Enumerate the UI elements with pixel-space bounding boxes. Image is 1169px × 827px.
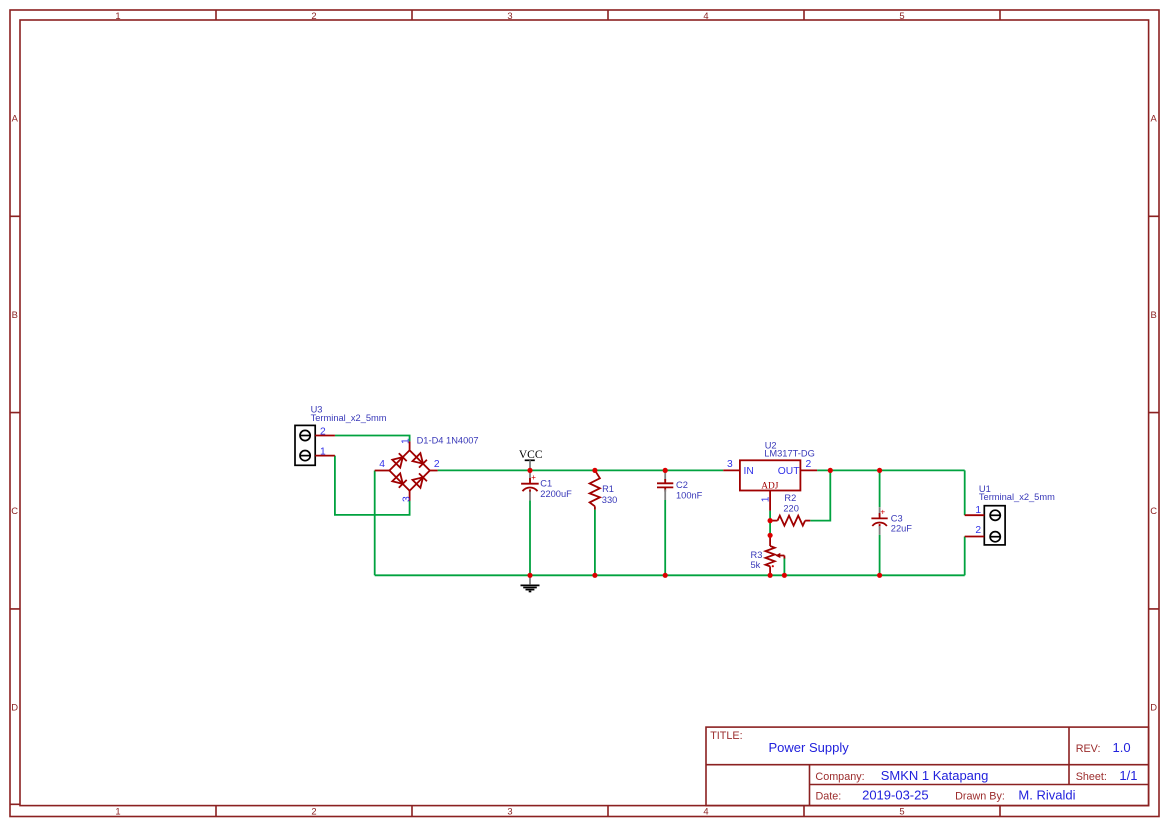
bridge rectifier D1-D4	[375, 435, 479, 502]
wire U1 pin2 to bottom rail	[964, 537, 966, 576]
svg-text:5: 5	[899, 806, 904, 817]
svg-text:22uF: 22uF	[891, 524, 913, 534]
svg-text:2: 2	[806, 459, 812, 470]
capacitor C2	[657, 470, 703, 500]
svg-text:2: 2	[434, 459, 440, 470]
wire top rail right	[817, 469, 965, 471]
svg-text:OUT: OUT	[778, 466, 800, 477]
wire C3 lower leg	[879, 535, 881, 576]
svg-text:1: 1	[760, 496, 771, 502]
svg-text:TITLE:: TITLE:	[710, 730, 742, 742]
svg-text:C1: C1	[540, 479, 552, 489]
svg-text:C3: C3	[891, 514, 903, 524]
svg-text:1.0: 1.0	[1113, 740, 1131, 755]
wire U2 out node down to R2	[810, 470, 830, 520]
svg-text:3: 3	[507, 10, 512, 21]
svg-text:1/1: 1/1	[1119, 768, 1137, 783]
svg-text:B: B	[12, 309, 18, 320]
svg-text:Terminal_x2_5mm: Terminal_x2_5mm	[979, 492, 1055, 502]
svg-text:C: C	[1150, 505, 1157, 516]
svg-text:R3: R3	[751, 550, 763, 560]
connector U1	[965, 484, 1055, 545]
svg-text:100nF: 100nF	[676, 490, 703, 500]
svg-text:IN: IN	[744, 466, 754, 477]
svg-text:+: +	[531, 473, 536, 482]
svg-text:1: 1	[401, 438, 412, 444]
wire ADJ to R2 and R3	[769, 511, 771, 537]
title block	[706, 727, 1149, 806]
svg-text:4: 4	[703, 10, 708, 21]
wire bridge pin4 to bottom rail	[374, 471, 376, 576]
svg-text:B: B	[1150, 309, 1156, 320]
svg-text:5: 5	[899, 10, 904, 21]
svg-text:Terminal_x2_5mm: Terminal_x2_5mm	[311, 413, 387, 423]
svg-text:M. Rivaldi: M. Rivaldi	[1018, 788, 1075, 803]
svg-text:+: +	[880, 508, 885, 517]
wire top rail left	[438, 469, 724, 471]
svg-text:1: 1	[115, 806, 120, 817]
svg-text:4: 4	[379, 459, 385, 470]
junction node dots	[527, 468, 882, 578]
svg-text:3: 3	[507, 806, 512, 817]
resistor R2	[770, 493, 810, 526]
capacitor C3	[871, 507, 912, 535]
svg-text:Date:: Date:	[816, 791, 842, 803]
svg-text:REV:: REV:	[1076, 743, 1101, 755]
svg-text:2: 2	[975, 525, 981, 536]
svg-text:220: 220	[783, 503, 799, 513]
wire R1 lower leg	[594, 510, 596, 576]
capacitor C1	[521, 470, 572, 500]
ground	[521, 575, 540, 591]
svg-text:2: 2	[311, 10, 316, 21]
svg-text:2019-03-25: 2019-03-25	[862, 788, 929, 803]
potentiometer R3	[751, 536, 785, 575]
wire C3 upper leg	[879, 470, 881, 507]
svg-text:D: D	[11, 701, 18, 712]
svg-text:D1-D4 1N4007: D1-D4 1N4007	[417, 435, 479, 445]
svg-text:A: A	[12, 113, 19, 124]
svg-text:1: 1	[975, 505, 981, 516]
svg-text:Drawn By:: Drawn By:	[955, 791, 1005, 803]
svg-text:C2: C2	[676, 480, 688, 490]
svg-text:2: 2	[320, 427, 326, 438]
svg-text:LM317T-DG: LM317T-DG	[764, 448, 815, 458]
wire U3 pin2 to bridge pin1	[335, 436, 410, 442]
svg-text:A: A	[1150, 113, 1157, 124]
wire R3 wiper to bottom rail	[783, 558, 785, 576]
regulator U2 LM317T-DG	[723, 440, 817, 510]
svg-text:330: 330	[602, 495, 618, 505]
svg-text:SMKN 1 Katapang: SMKN 1 Katapang	[881, 768, 989, 783]
svg-text:VCC: VCC	[519, 449, 543, 461]
svg-text:ADJ: ADJ	[761, 482, 779, 492]
svg-text:R2: R2	[784, 493, 796, 503]
svg-text:Company:: Company:	[815, 771, 864, 783]
svg-text:2200uF: 2200uF	[540, 489, 572, 499]
svg-text:C: C	[11, 505, 18, 516]
wire bottom rail	[375, 574, 965, 576]
svg-text:4: 4	[703, 806, 708, 817]
svg-text:3: 3	[401, 496, 412, 502]
wire C2 lower leg	[664, 500, 666, 575]
svg-text:Sheet:: Sheet:	[1076, 771, 1107, 783]
wire right rail to U1 pin1	[964, 470, 966, 515]
svg-text:5k: 5k	[751, 560, 761, 570]
VCC power symbol	[519, 449, 543, 471]
connector U3	[295, 405, 387, 466]
svg-text:Power Supply: Power Supply	[769, 740, 850, 755]
svg-text:R1: R1	[602, 484, 614, 494]
svg-text:D: D	[1150, 701, 1157, 712]
svg-text:2: 2	[311, 806, 316, 817]
svg-text:3: 3	[727, 459, 733, 470]
resistor R1	[590, 471, 618, 510]
wire U3 pin1 to bridge pin3	[335, 456, 410, 515]
wire C1 lower leg	[529, 500, 531, 575]
svg-text:1: 1	[320, 447, 326, 458]
svg-text:1: 1	[115, 10, 120, 21]
